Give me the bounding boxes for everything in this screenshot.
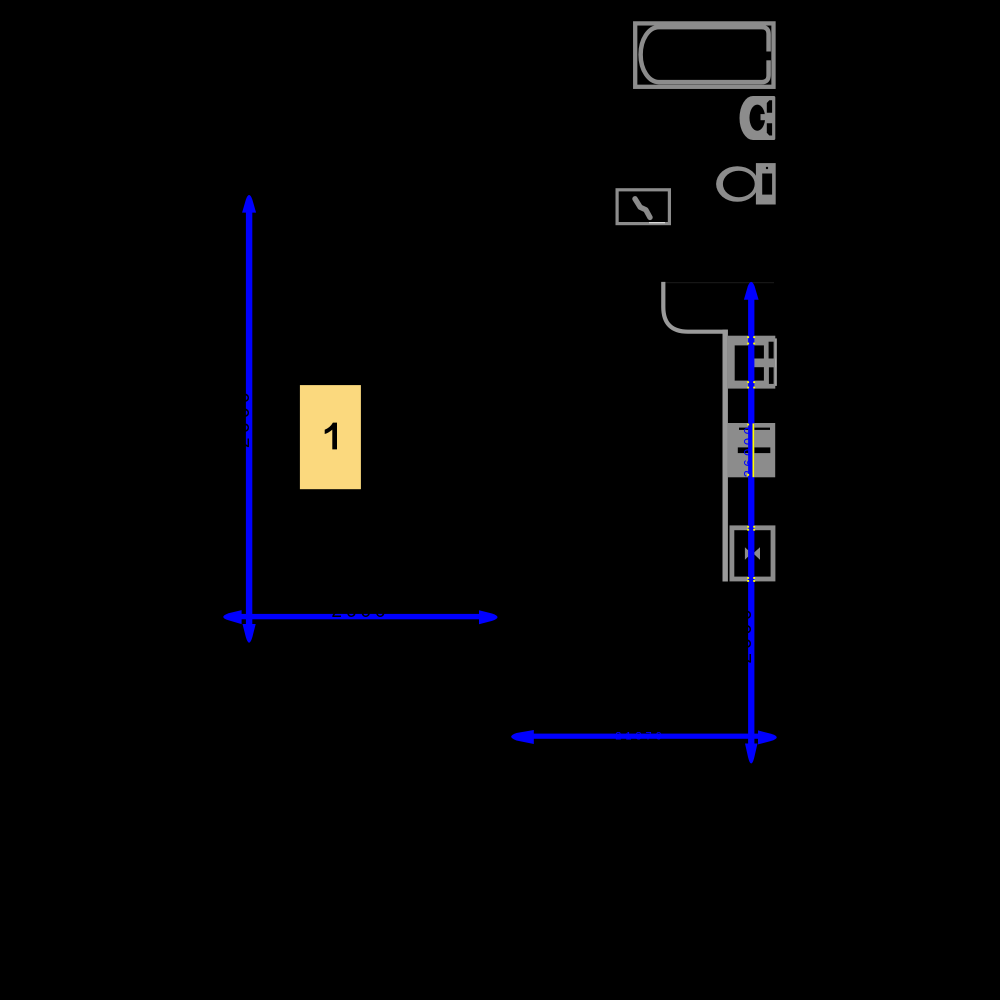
dim A vertical line	[233, 195, 256, 643]
faint ceiling line	[665, 282, 774, 283]
dim B horizontal line	[511, 730, 777, 744]
svg-text:2600: 2600	[233, 388, 254, 448]
svg-text:2600: 2600	[735, 605, 756, 663]
room label 1	[300, 385, 361, 489]
stove	[728, 423, 776, 477]
kitchen sink unit	[728, 336, 777, 389]
svg-text:21870: 21870	[615, 730, 666, 742]
svg-text:2600: 2600	[331, 601, 389, 622]
dim A horizontal line	[223, 601, 497, 624]
fridge	[732, 528, 773, 579]
toilet	[716, 163, 776, 204]
yellow extension line	[753, 423, 755, 477]
yellow tick dots	[747, 336, 755, 582]
dim B vertical line	[735, 282, 759, 764]
wall curve	[663, 282, 727, 332]
vent box	[617, 190, 669, 224]
bathtub	[635, 23, 773, 86]
washbasin	[740, 96, 776, 140]
kitchen wall	[723, 330, 728, 582]
